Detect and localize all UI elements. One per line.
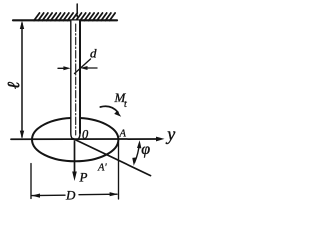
svg-text:A′: A′	[97, 163, 107, 174]
svg-text:P: P	[79, 170, 88, 185]
d leader line	[75, 59, 91, 74]
P force arrow	[74, 142, 76, 174]
rod right line (thicker)	[79, 21, 81, 134]
phi bottom arrowhead	[132, 157, 136, 166]
D dim right arrowhead	[110, 192, 118, 196]
y axis arrowhead	[156, 137, 165, 142]
ellipse disc	[32, 118, 118, 161]
svg-text:0: 0	[82, 127, 89, 141]
svg-text:d: d	[90, 46, 97, 61]
svg-text:D: D	[65, 188, 76, 203]
centerline above ceiling	[76, 4, 78, 20]
rod (shaft), white filled to hide ellipse behind	[71, 21, 80, 140]
D dimension line left segment	[32, 194, 65, 196]
D dimension line right segment	[79, 193, 117, 196]
l bottom arrow	[20, 131, 24, 139]
D dimension right extension	[118, 143, 120, 200]
phi top arrowhead	[137, 140, 141, 148]
D dim left arrowhead	[32, 194, 40, 198]
D dimension left extension	[30, 164, 32, 199]
l top arrow	[20, 21, 24, 29]
rod centerline dash-dot	[75, 24, 77, 135]
svg-text:y: y	[165, 124, 175, 144]
phi arc	[135, 144, 140, 163]
l dimension line	[21, 23, 23, 137]
ceiling hatching	[34, 13, 115, 21]
y axis line	[11, 138, 158, 140]
ceiling line	[13, 19, 117, 21]
svg-text:ℓ: ℓ	[4, 82, 23, 89]
svg-text:φ: φ	[141, 141, 150, 158]
slanted line OA'	[73, 139, 151, 176]
d dimension left arrow	[58, 67, 67, 69]
svg-text:t: t	[124, 99, 127, 110]
svg-text:A: A	[119, 129, 127, 140]
d dimension right arrow	[84, 67, 97, 69]
Mt curved arrow	[100, 106, 118, 112]
